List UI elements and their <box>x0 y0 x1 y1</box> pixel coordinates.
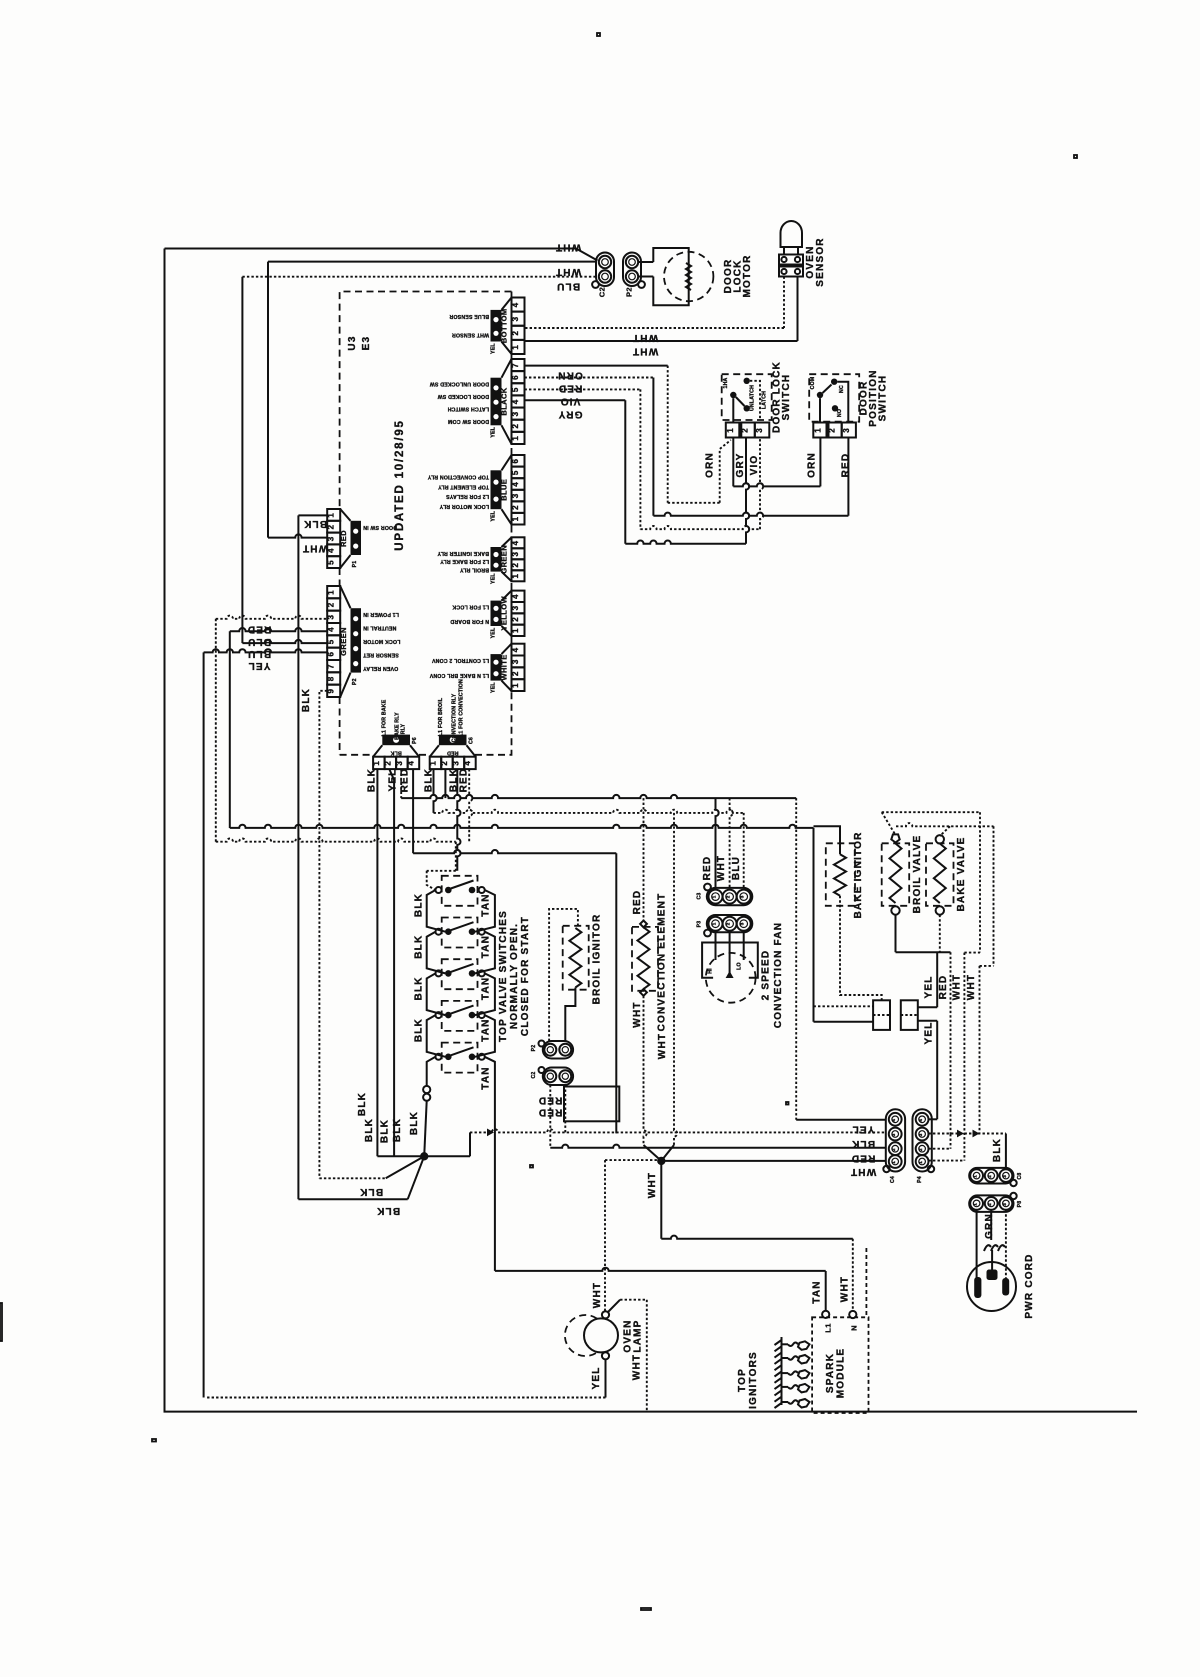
wire WHT lamp slant <box>608 1300 620 1312</box>
connector C3 of fan <box>697 884 753 906</box>
svg-text:BLK: BLK <box>357 1092 368 1116</box>
wire RED P4 pin3 <box>929 1148 951 1150</box>
svg-text:L1 FOR BROIL: L1 FOR BROIL <box>438 697 444 736</box>
svg-text:WHT: WHT <box>632 1001 643 1027</box>
svg-text:2: 2 <box>828 428 837 433</box>
svg-text:BROIL RLY: BROIL RLY <box>459 567 489 573</box>
2 speed convection fan motor <box>702 943 758 1003</box>
svg-text:YEL: YEL <box>851 1124 874 1135</box>
svg-text:3: 3 <box>511 605 520 610</box>
svg-text:BLU: BLU <box>731 856 742 880</box>
svg-text:2: 2 <box>511 424 520 429</box>
door lock switch <box>722 374 772 422</box>
svg-text:GRY: GRY <box>735 453 746 478</box>
svg-text:NO: NO <box>837 409 843 417</box>
svg-text:P2: P2 <box>625 287 634 297</box>
svg-text:TAN: TAN <box>481 935 492 958</box>
wire link right <box>475 973 495 1015</box>
wire TAN valve bus to oven lamp feed <box>485 1057 495 1271</box>
wire BLU into 9pin pin5 <box>241 277 243 643</box>
svg-text:BLK: BLK <box>380 1119 391 1143</box>
svg-text:1: 1 <box>712 895 717 898</box>
svg-text:2: 2 <box>511 505 520 510</box>
wire BLU into 9pin pin4 <box>229 631 231 828</box>
svg-text:4: 4 <box>918 1119 923 1122</box>
svg-text:1: 1 <box>511 683 520 688</box>
svg-text:WHT: WHT <box>592 1282 603 1308</box>
svg-text:VIO: VIO <box>749 455 760 476</box>
svg-text:2: 2 <box>891 1148 896 1151</box>
wire BLK from 9pin pin9 <box>319 691 327 1179</box>
wire VIO board to door lock switch pin3 <box>525 388 641 390</box>
svg-text:4: 4 <box>511 482 520 487</box>
svg-text:BROIL VALVE: BROIL VALVE <box>912 835 923 914</box>
wire link left <box>427 1015 446 1057</box>
wire bus A4 down <box>412 769 414 853</box>
wire valves common return <box>895 915 897 953</box>
svg-text:CLOSED FOR START: CLOSED FOR START <box>520 916 531 1036</box>
valve switch S3 <box>436 959 485 989</box>
svg-text:3: 3 <box>891 1133 896 1136</box>
svg-text:1: 1 <box>428 761 437 766</box>
svg-text:3: 3 <box>327 615 336 620</box>
svg-text:5: 5 <box>511 387 520 392</box>
svg-text:BLK: BLK <box>851 1138 875 1149</box>
svg-text:3: 3 <box>918 1133 923 1136</box>
svg-text:OVEN RELAY: OVEN RELAY <box>363 665 399 671</box>
wire BLK bus to connector C4 pin2 <box>470 1129 886 1132</box>
svg-text:8: 8 <box>327 676 336 681</box>
svg-text:1: 1 <box>814 428 823 433</box>
top ignitor spark gaps <box>782 1341 810 1407</box>
svg-text:WHT: WHT <box>302 543 328 554</box>
svg-text:CONVECTION RLY: CONVECTION RLY <box>452 693 458 742</box>
svg-text:C3: C3 <box>697 892 703 899</box>
wire link left <box>427 932 446 974</box>
connector P4 <box>913 1109 935 1183</box>
scan speck <box>597 33 600 36</box>
svg-text:1: 1 <box>511 436 520 441</box>
connector P3 of fan <box>697 915 753 936</box>
svg-text:4: 4 <box>511 399 520 404</box>
wire WHT second to connector C2 <box>268 261 596 263</box>
wire WHT bus vertical <box>674 813 677 1145</box>
wire YEL into 9pin pin6 <box>203 652 205 1397</box>
ground coil symbol <box>984 1245 1005 1251</box>
svg-text:BLK: BLK <box>414 1018 425 1042</box>
svg-text:GREEN: GREEN <box>500 545 509 574</box>
wire RED bus relay pin A3 to connector C4 <box>400 769 402 798</box>
svg-text:BAKE IGNITOR: BAKE IGNITOR <box>853 832 864 919</box>
svg-text:BAKE VALVE: BAKE VALVE <box>956 837 967 912</box>
svg-text:CONVECTION ELEMENT: CONVECTION ELEMENT <box>657 893 668 1032</box>
wire GRY board to door lock switch pin2 <box>525 399 626 401</box>
wire broil ignitor feed loop <box>549 909 578 1041</box>
svg-text:YEL: YEL <box>388 768 399 791</box>
board connector J1 (door motor/sensor) <box>449 298 524 355</box>
svg-text:P6: P6 <box>412 737 418 744</box>
wire RED bus from 9pin to valve switches <box>216 839 456 842</box>
svg-text:WHT: WHT <box>952 974 963 1000</box>
wire WHT P4 pin4 <box>929 1160 965 1162</box>
svg-text:3: 3 <box>511 552 520 557</box>
svg-text:L2 FOR RELAYS: L2 FOR RELAYS <box>446 493 489 499</box>
svg-text:L1 CONTROL 2 CONV: L1 CONTROL 2 CONV <box>431 657 489 663</box>
svg-text:BLK: BLK <box>392 1118 403 1142</box>
svg-text:BLU: BLU <box>247 636 271 647</box>
svg-text:WHT: WHT <box>632 1354 643 1380</box>
svg-text:5: 5 <box>511 470 520 475</box>
junction circle N node <box>849 1311 856 1318</box>
svg-text:WHT: WHT <box>632 346 658 357</box>
wire WHT junction to oven lamp feed <box>605 1159 661 1161</box>
wire convection element feed <box>643 798 645 920</box>
svg-text:P8: P8 <box>1017 1201 1023 1208</box>
convection element <box>632 921 658 996</box>
junction triangles <box>957 1130 964 1138</box>
connector P8 <box>969 1193 1023 1212</box>
wire BLK bus to x616 <box>413 850 616 853</box>
svg-text:MOTOR: MOTOR <box>742 254 753 297</box>
svg-text:BLK: BLK <box>414 976 425 1000</box>
svg-text:LATCH SWITCH: LATCH SWITCH <box>447 406 489 412</box>
wire link right <box>475 932 495 974</box>
svg-text:4: 4 <box>511 541 520 546</box>
bake valve <box>926 835 954 915</box>
svg-text:BLU: BLU <box>556 281 580 292</box>
svg-text:SPARK: SPARK <box>825 1353 836 1393</box>
wire WHT from C2 area to 5pin pin3 <box>267 262 269 538</box>
svg-text:YEL: YEL <box>924 1021 935 1044</box>
svg-text:YEL: YEL <box>491 426 497 437</box>
svg-text:BAKE IGNITER RLY: BAKE IGNITER RLY <box>437 550 489 556</box>
wire BLK 5pin pin1 <box>298 514 327 516</box>
connector C8 <box>969 1168 1023 1186</box>
svg-text:WHT: WHT <box>850 1166 876 1177</box>
svg-text:L1 FOR CONVECTION: L1 FOR CONVECTION <box>459 679 465 737</box>
svg-text:WHT: WHT <box>647 1172 658 1198</box>
wire RED to red bus <box>549 1085 551 1148</box>
svg-text:C2: C2 <box>531 1071 537 1078</box>
wire B2 tee <box>444 769 446 798</box>
valve switch S1 <box>436 876 485 906</box>
svg-text:5: 5 <box>327 560 336 565</box>
svg-text:1: 1 <box>891 1161 896 1164</box>
svg-text:SENSOR RET: SENSOR RET <box>362 652 398 658</box>
svg-text:WHT: WHT <box>716 855 727 881</box>
svg-text:YEL: YEL <box>491 510 497 521</box>
svg-text:ORN: ORN <box>807 452 818 478</box>
svg-text:SWITCH: SWITCH <box>878 375 889 422</box>
svg-text:L1 FOR LOCK: L1 FOR LOCK <box>452 604 489 610</box>
svg-text:1: 1 <box>511 574 520 579</box>
svg-text:RED: RED <box>459 768 470 793</box>
svg-text:NORMALLY OPEN.: NORMALLY OPEN. <box>509 923 520 1029</box>
wire BLK down to connector C8 <box>1005 1134 1007 1169</box>
valve switch S4 <box>436 1001 485 1031</box>
ground bar with hatching <box>775 1337 782 1408</box>
board connector P11 (9 pin) <box>327 586 401 697</box>
board connector J3 BLUE <box>427 455 524 525</box>
svg-text:CONVECTION FAN: CONVECTION FAN <box>773 922 784 1028</box>
svg-text:P4: P4 <box>917 1176 923 1183</box>
wire bake ignitor return to relay box <box>840 896 882 1001</box>
component box (door latch relay) <box>564 1087 619 1122</box>
svg-text:BLK: BLK <box>303 518 327 529</box>
svg-text:YEL: YEL <box>491 573 497 584</box>
svg-text:2: 2 <box>511 617 520 622</box>
svg-text:GREEN: GREEN <box>339 627 348 656</box>
svg-text:NC: NC <box>839 385 845 393</box>
wire WHT convection element return <box>644 996 647 1145</box>
board connector J6 GREEN <box>437 537 525 584</box>
svg-text:4: 4 <box>511 594 520 599</box>
wire YEL relay box2 to connector P4 pin1 <box>918 1020 937 1022</box>
relay box K1 <box>873 1000 890 1030</box>
wire power cord neutral <box>1005 1210 1007 1285</box>
wire link right <box>475 1015 495 1057</box>
svg-text:3: 3 <box>395 761 404 766</box>
svg-text:2: 2 <box>987 1203 992 1206</box>
wire WHT lamp return loop <box>646 1300 648 1412</box>
svg-text:3: 3 <box>740 895 745 898</box>
wire BLU to connector C2 pin 1 <box>242 276 596 278</box>
svg-text:MODULE: MODULE <box>836 1348 847 1399</box>
svg-text:3: 3 <box>511 316 520 321</box>
svg-text:YEL: YEL <box>491 627 497 638</box>
svg-text:1: 1 <box>973 1175 978 1178</box>
svg-text:HI: HI <box>708 968 714 974</box>
svg-text:2: 2 <box>726 922 731 925</box>
wire BLK relay pin A1 down to junction <box>376 769 378 1156</box>
wire WHT junction to connector C4 pin4 <box>661 1160 886 1162</box>
svg-text:YEL: YEL <box>247 660 270 671</box>
svg-text:RED: RED <box>558 383 583 394</box>
wire BLK relay pin A2 down to junction <box>389 769 394 1156</box>
bake ignitor resistor <box>826 843 855 906</box>
wire RED P4 pin2 bus <box>929 1133 1006 1135</box>
page border frame <box>165 249 1138 1412</box>
svg-text:E3: E3 <box>361 336 372 351</box>
wire bake valve feed <box>896 823 994 826</box>
svg-text:IGNITORS: IGNITORS <box>748 1351 759 1409</box>
door position switch <box>809 374 859 422</box>
connector C2 <box>592 253 614 298</box>
wire broil valve feed <box>882 811 980 813</box>
wire YEL oven lamp <box>605 1359 607 1398</box>
svg-text:2: 2 <box>383 761 392 766</box>
svg-text:TOP CONVECTION RLY: TOP CONVECTION RLY <box>427 473 489 479</box>
wire link left <box>427 890 446 932</box>
board connector P10 (5 pin) <box>327 509 397 568</box>
power cord plug <box>967 1262 1016 1311</box>
svg-text:2: 2 <box>327 602 336 607</box>
svg-text:RED: RED <box>702 856 713 881</box>
svg-text:YELLOW: YELLOW <box>500 596 509 631</box>
svg-text:ORN: ORN <box>705 452 716 478</box>
wire junction bus <box>377 1155 470 1157</box>
wire WHT oven sensor return <box>797 277 799 342</box>
svg-text:C8: C8 <box>1017 1172 1023 1179</box>
svg-text:LOCK MOTOR: LOCK MOTOR <box>363 638 400 644</box>
svg-text:WHT SENSOR: WHT SENSOR <box>452 331 489 337</box>
svg-text:NEUTRAL IN: NEUTRAL IN <box>363 625 396 631</box>
svg-text:N: N <box>850 1325 859 1331</box>
svg-text:WHT: WHT <box>966 974 977 1000</box>
svg-text:WHT: WHT <box>555 266 581 277</box>
svg-text:GRN: GRN <box>984 1213 995 1239</box>
svg-text:3: 3 <box>511 493 520 498</box>
svg-text:2: 2 <box>440 761 449 766</box>
svg-text:BLUE: BLUE <box>500 479 509 501</box>
svg-text:2: 2 <box>511 563 520 568</box>
wire WHT dotted from broil feeder down <box>964 952 980 954</box>
svg-text:RED: RED <box>447 750 459 756</box>
svg-text:N FOR BOARD: N FOR BOARD <box>450 618 489 624</box>
svg-text:P1: P1 <box>352 561 358 568</box>
svg-text:TOP: TOP <box>737 1368 748 1392</box>
svg-text:1: 1 <box>372 761 381 766</box>
svg-text:GRY: GRY <box>558 409 583 420</box>
svg-text:TAN: TAN <box>812 1280 823 1303</box>
wire broil ignitor return <box>565 988 575 1042</box>
svg-text:L2 FOR BAKE RLY: L2 FOR BAKE RLY <box>440 558 489 564</box>
svg-text:WHT: WHT <box>840 1276 851 1302</box>
wire BLK bus from 5pin pin1 down <box>297 515 299 1199</box>
valve switch S2 <box>436 918 485 948</box>
svg-text:DOOR UNLOCKED SW: DOOR UNLOCKED SW <box>430 381 489 387</box>
svg-text:DOOR SW COM: DOOR SW COM <box>448 418 489 424</box>
svg-text:LAMP: LAMP <box>633 1319 644 1352</box>
wire RED valves to connector P4 <box>950 952 952 1134</box>
svg-text:TOP VALVE SWITCHES: TOP VALVE SWITCHES <box>498 910 509 1042</box>
svg-text:L1: L1 <box>824 1323 833 1333</box>
svg-text:C6: C6 <box>469 737 475 744</box>
svg-text:4: 4 <box>463 761 472 766</box>
svg-text:P2: P2 <box>531 1045 537 1052</box>
wire link left <box>427 973 446 1015</box>
wire ORN door lock sw pin1 to door position sw pin1 <box>732 438 734 487</box>
door position switch pins 1 2 3 <box>813 423 856 438</box>
broil valve <box>882 834 910 914</box>
relay box K2 <box>901 1000 918 1030</box>
svg-text:5: 5 <box>327 639 336 644</box>
wire RED bus x550 to connector C4 pin3 <box>550 1145 886 1148</box>
wire BLK diag from x298 <box>298 1198 407 1200</box>
svg-text:LOCK MOTOR RLY: LOCK MOTOR RLY <box>439 503 489 509</box>
wire WHT top to connector C2 pin 2 <box>165 249 598 261</box>
wire RED to blk bus <box>564 1085 566 1133</box>
oven lamp <box>565 1311 618 1359</box>
svg-text:YEL: YEL <box>491 682 497 693</box>
svg-text:2 SPEED: 2 SPEED <box>761 950 772 1001</box>
svg-text:BLK: BLK <box>367 768 378 792</box>
svg-text:BLK: BLK <box>992 1138 1003 1162</box>
svg-text:3: 3 <box>1002 1175 1007 1178</box>
board connector J4 YELLOW <box>450 591 524 639</box>
svg-text:TAN: TAN <box>481 1018 492 1041</box>
svg-text:2: 2 <box>987 1175 992 1178</box>
wire RED B4 tee to red bus <box>469 769 472 842</box>
connector P2 of door lock motor <box>623 253 645 297</box>
svg-text:3: 3 <box>327 536 336 541</box>
svg-text:BLK: BLK <box>414 893 425 917</box>
svg-text:1: 1 <box>511 516 520 521</box>
oven sensor <box>779 221 803 277</box>
svg-text:SWITCH: SWITCH <box>781 374 792 421</box>
svg-text:9: 9 <box>327 689 336 694</box>
svg-text:1: 1 <box>726 428 735 433</box>
wire bake ignitor feed (BLU bus down x813) <box>813 828 815 1022</box>
svg-text:YEL: YEL <box>924 975 935 998</box>
wire TAN feed to spark module L1 <box>825 1271 827 1311</box>
svg-text:P2: P2 <box>352 678 358 685</box>
relay connector P6 (bake) <box>367 699 420 792</box>
valve switch S5 <box>436 1043 485 1073</box>
svg-text:4: 4 <box>406 761 415 766</box>
svg-text:4: 4 <box>891 1119 896 1122</box>
svg-text:3: 3 <box>451 761 460 766</box>
svg-text:BLK: BLK <box>359 1186 383 1197</box>
svg-text:1: 1 <box>511 628 520 633</box>
svg-text:ORN: ORN <box>557 370 583 381</box>
svg-text:BLK: BLK <box>376 1205 400 1216</box>
svg-text:P3: P3 <box>697 921 703 928</box>
svg-text:1: 1 <box>973 1203 978 1206</box>
wire YEL valves to relay box2 <box>936 952 938 1007</box>
svg-text:4: 4 <box>511 302 520 307</box>
svg-text:1: 1 <box>918 1161 923 1164</box>
connector pair P9 broil ignitor <box>531 1041 573 1059</box>
svg-text:BLK: BLK <box>364 1118 375 1142</box>
svg-text:C4: C4 <box>890 1176 896 1183</box>
wire BLK valve bus bottom to junction connector <box>427 1057 436 1086</box>
wire YEL P4 pin1 <box>929 1118 938 1120</box>
wire B3 to valve switch bus <box>457 769 460 871</box>
svg-text:4: 4 <box>511 647 520 652</box>
svg-text:RED: RED <box>851 1153 876 1164</box>
svg-text:2: 2 <box>511 331 520 336</box>
svg-text:COM: COM <box>810 377 816 390</box>
svg-text:2: 2 <box>726 895 731 898</box>
svg-text:BLK: BLK <box>301 688 312 712</box>
wire link right <box>475 890 495 932</box>
wire BLU fan feed <box>743 813 745 890</box>
wires P3 to fan motor <box>715 931 717 960</box>
svg-text:1: 1 <box>327 513 336 518</box>
svg-text:BROIL IGNITOR: BROIL IGNITOR <box>592 914 603 1005</box>
svg-text:BLK: BLK <box>409 1111 420 1135</box>
wire WHT dotted from bake feeder down <box>993 826 995 966</box>
svg-text:2: 2 <box>918 1148 923 1151</box>
junction node WHT <box>657 1157 665 1165</box>
door lock motor <box>653 248 713 305</box>
svg-text:6: 6 <box>327 652 336 657</box>
svg-text:DOOR LOCKED SW: DOOR LOCKED SW <box>437 393 489 399</box>
wire YEL drop to connector C4 pin1 <box>795 798 797 1120</box>
svg-text:6: 6 <box>511 375 520 380</box>
svg-text:YEL: YEL <box>591 1366 602 1389</box>
connector pair in BLK wire <box>423 1086 430 1093</box>
svg-text:1HA: 1HA <box>723 377 729 388</box>
wire WHT junction down to spark module N <box>660 1161 662 1239</box>
svg-text:2: 2 <box>741 428 750 433</box>
svg-text:RLY: RLY <box>401 723 407 734</box>
svg-text:C2: C2 <box>598 287 607 297</box>
svg-text:DOOR SW IN: DOOR SW IN <box>363 524 397 530</box>
wire power cord hot <box>976 1210 978 1288</box>
svg-text:SENSOR: SENSOR <box>815 237 826 286</box>
